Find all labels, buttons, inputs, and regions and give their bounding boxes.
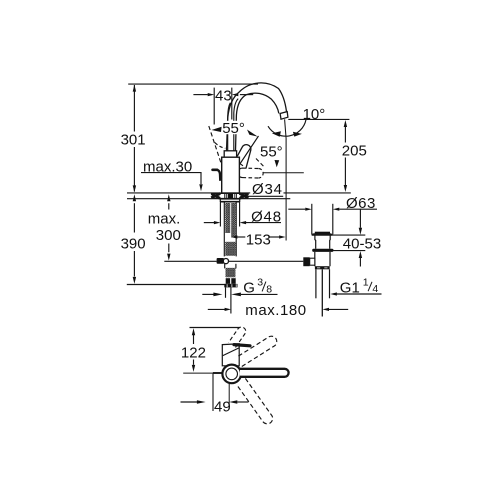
node 10deg angle arc [268,120,306,137]
node 55deg-1 label [222,121,247,134]
node max.180 dimension [208,308,225,310]
wire: top view upper reference line [190,327,240,329]
svg-text:55°: 55° [260,144,283,161]
svg-text:205: 205 [342,143,367,160]
component G3/8 hose nut [226,278,230,284]
component threaded shank [223,202,225,257]
svg-text:Ø48: Ø48 [251,209,282,226]
node 122 dimension line [193,335,195,344]
wire: 205 top reference line [288,118,349,120]
node 43 dimension [213,88,215,125]
node G3/8 dimension and label [202,293,213,295]
node 55deg upper-left annotation: dashed lever axis [209,126,221,163]
svg-text:122: 122 [181,345,206,362]
wire: counter edge lines in top view [213,372,222,374]
wire: top view lower reference line [183,372,213,374]
node G1 1/4 dimension and label [330,292,337,295]
svg-text:1: 1 [363,277,369,289]
svg-text:390: 390 [121,236,146,253]
node 49 dimension [181,401,198,403]
component mixer head (top view) [222,344,239,366]
wire: mounting deck top line [127,192,250,194]
wire: top reference line (301 top / spout crest) [128,83,258,85]
component lever pill right solid (top view) [240,369,289,377]
component lever in raised position (solid pill) [237,145,251,169]
component lever pill up-right dashed (top view) [236,336,277,366]
svg-text:301: 301 [121,131,146,148]
svg-text:153: 153 [246,232,271,249]
svg-text:8: 8 [266,284,272,296]
component waste bottom thread band [315,266,330,269]
component aerator outlet box [280,112,288,120]
svg-text:G1: G1 [340,280,360,297]
node 40-53 dimension [333,234,365,236]
component lever pill down-right dashed (top view) [237,378,273,423]
component cartridge section between deck lines [228,194,233,199]
svg-text:55°: 55° [222,120,245,137]
component cartridge cap [224,151,236,157]
component lever front position (short dashed capsule) [238,168,263,178]
node Ø48 dimension [219,203,221,227]
component side lever stub (solid) [213,168,218,171]
wire: raised lever line (solid) [237,136,259,169]
component escutcheon on deck with cross wedges [211,193,248,198]
svg-text:40-53: 40-53 [343,236,381,253]
component body circle (top view) [222,365,241,384]
svg-text:49: 49 [214,398,231,415]
node 153 dimension [237,236,245,238]
node 390 dimension line [133,203,135,232]
node 55deg-2 down arrowhead [275,160,280,167]
svg-text:max.180: max.180 [245,302,306,319]
node 55deg dashed angle arc [215,143,226,149]
node 301 dimension line [133,85,135,132]
wire: dashed lever edge segments (mid position) [235,160,245,167]
svg-text:300: 300 [156,227,181,244]
wire: mounting deck bottom line [127,198,290,200]
node 55deg-1 left arrowhead [212,127,222,132]
node Ø63 dimension [311,204,313,235]
component hose end tube [225,287,227,297]
component supply hose braid [224,264,226,269]
component waste body [315,252,330,266]
component shank retaining flange below deck [220,199,239,202]
node 55deg-1 right arrowhead [247,130,258,137]
component waste plug cap [315,232,330,234]
svg-text:3: 3 [257,277,263,289]
wire: spout inner arc with riser right wall [236,93,279,151]
svg-text:G: G [243,279,255,296]
wire: outlet axis extension line down to 153 dimension [285,119,287,240]
wire: bottom reference line (390 bottom / hose end) [127,284,236,286]
wire: riser inner wall lines [228,103,231,151]
wire: lever reference line to the right [263,172,304,174]
wire: horizontal pop-up rod [164,260,216,262]
component waste side port block [303,257,309,266]
component waste seal ring [312,249,333,252]
component faucet body [222,157,240,193]
node 205 dimension line [344,127,346,143]
svg-text:4: 4 [372,283,378,295]
svg-text:43: 43 [215,87,232,104]
component waste neck [315,235,330,249]
component lever raised dashed pill (top view) [229,327,246,347]
wire: spout outer arc with riser left wall [227,83,287,151]
svg-text:Ø34: Ø34 [252,181,283,198]
component lever bar (top view, solid) [234,345,250,346]
svg-text:max.: max. [148,210,181,227]
wire: pop-up rod extension below waste [321,269,323,316]
node max.300 dimension line [168,203,170,252]
component waste tailpipe [315,269,317,298]
component waste flange [312,234,333,235]
component pop-up rod coupling [217,258,224,264]
